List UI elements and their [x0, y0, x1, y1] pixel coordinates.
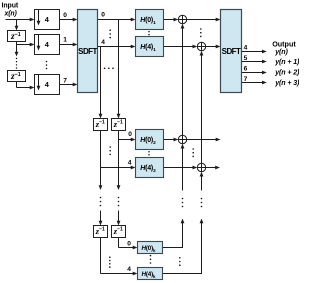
svg-text:y(n + 2): y(n + 2) — [274, 69, 299, 77]
svg-text:x(n): x(n) — [4, 11, 18, 18]
svg-text:0: 0 — [101, 11, 105, 18]
svg-text:1: 1 — [63, 37, 67, 44]
svg-text:4: 4 — [244, 45, 248, 52]
svg-text:4: 4 — [128, 159, 132, 166]
svg-text:7: 7 — [244, 76, 248, 83]
svg-text:SDFT: SDFT — [222, 47, 241, 56]
svg-text:−1: −1 — [99, 227, 105, 233]
svg-text:−1: −1 — [117, 120, 123, 126]
svg-text:y(n + 3): y(n + 3) — [274, 79, 299, 87]
svg-text:−1: −1 — [117, 227, 123, 233]
svg-text:4: 4 — [127, 266, 131, 273]
svg-text:0: 0 — [128, 131, 132, 138]
svg-text:Input: Input — [2, 2, 19, 9]
svg-text:5: 5 — [244, 55, 248, 62]
svg-text:−1: −1 — [15, 32, 21, 38]
svg-text:y(n): y(n) — [274, 48, 288, 56]
svg-text:−1: −1 — [15, 72, 21, 78]
svg-text:−1: −1 — [99, 120, 105, 126]
svg-text:7: 7 — [63, 78, 67, 85]
svg-text:y(n + 1): y(n + 1) — [274, 58, 299, 66]
svg-text:0: 0 — [63, 12, 67, 19]
svg-text:6: 6 — [244, 66, 248, 73]
svg-text:SDFT: SDFT — [78, 47, 97, 56]
svg-text:4: 4 — [101, 39, 105, 46]
svg-text:0: 0 — [127, 240, 131, 247]
